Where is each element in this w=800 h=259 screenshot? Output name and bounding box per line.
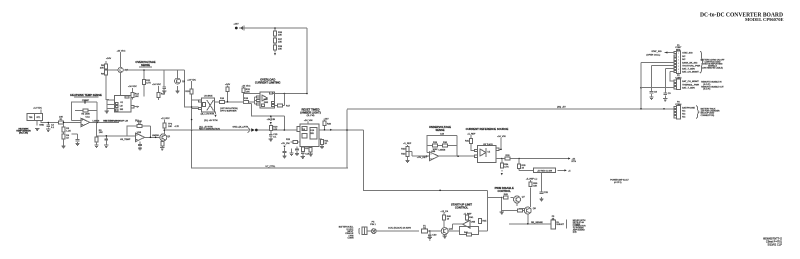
svg-text:(4A) +5V: (4A) +5V — [557, 106, 566, 109]
svg-text:U7_CTRL: U7_CTRL — [266, 166, 277, 168]
svg-text:(2L): (2L) — [135, 120, 139, 122]
svg-text:(AMBER LIGHT): (AMBER LIGHT) — [300, 110, 321, 114]
svg-text:(HS-T-06): (HS-T-06) — [19, 133, 28, 135]
svg-text:(2L) +5V RTN: (2L) +5V RTN — [201, 113, 215, 115]
svg-text:+5_REF: +5_REF — [467, 134, 476, 136]
svg-text:(OPEN COLL): (OPEN COLL) — [646, 54, 660, 56]
svg-text:COIL (BLACK) 16 AWG: COIL (BLACK) 16 AWG — [388, 226, 411, 229]
svg-text:BAT_CH_MGMT: BAT_CH_MGMT — [682, 80, 699, 83]
svg-text:10K: 10K — [533, 185, 537, 187]
svg-text:BAT/PHONE: BAT/PHONE — [682, 106, 695, 109]
svg-text:POWER AMP A3-A7: POWER AMP A3-A7 — [610, 179, 629, 182]
svg-text:10K: 10K — [168, 126, 172, 128]
svg-text:6: 6 — [678, 69, 679, 71]
svg-text:+12 VDC: +12 VDC — [161, 118, 170, 120]
svg-text:R2 100K: R2 100K — [81, 114, 90, 116]
svg-text:+24_VIN: +24_VIN — [497, 136, 506, 138]
svg-text:+5_REF (+): +5_REF (+) — [526, 178, 538, 180]
svg-text:3: 3 — [678, 60, 679, 62]
svg-text:SENSE: SENSE — [435, 128, 444, 132]
svg-text:RTN: RTN — [572, 161, 577, 163]
svg-text:GND: GND — [39, 125, 44, 127]
svg-text:NEXT GENERATION: NEXT GENERATION — [199, 128, 220, 131]
svg-text:7: 7 — [678, 72, 679, 74]
svg-text:MODEL CP96070E: MODEL CP96070E — [745, 18, 784, 22]
svg-text:NC: NC — [682, 117, 686, 119]
svg-text:HS_TEMP: HS_TEMP — [120, 139, 131, 141]
svg-text:+24V: +24V — [233, 24, 239, 26]
svg-text:STAT_SIG: STAT_SIG — [682, 51, 693, 54]
svg-text:LM: LM — [120, 106, 123, 108]
svg-text:BAT_T_SEN: BAT_T_SEN — [682, 67, 695, 70]
svg-text:(4 OF 5): (4 OF 5) — [614, 182, 622, 184]
svg-text:CONN: CONN — [348, 238, 354, 240]
svg-text:+24V: +24V — [106, 58, 112, 60]
svg-text:+5V REG 1A 4W: +5V REG 1A 4W — [537, 169, 552, 172]
svg-text:U1A: U1A — [86, 116, 91, 119]
svg-text:10K: 10K — [246, 91, 250, 93]
svg-text:BAT_T_SEN: BAT_T_SEN — [682, 87, 695, 90]
svg-text:+5_REF: +5_REF — [403, 143, 412, 145]
svg-text:5/13/02 CLP: 5/13/02 CLP — [768, 243, 783, 247]
svg-text:NC: NC — [682, 59, 686, 61]
svg-text:C1 30P: C1 30P — [82, 100, 90, 102]
svg-text:STAT_SIG: STAT_SIG — [651, 50, 662, 53]
svg-text:U1B: U1B — [137, 132, 142, 134]
svg-text:+12_PA: +12_PA — [440, 210, 448, 213]
svg-text:4.7K: 4.7K — [175, 126, 180, 128]
svg-text:LM358: LM358 — [439, 150, 446, 152]
svg-text:CURRENT LIMITING: CURRENT LIMITING — [255, 80, 281, 84]
svg-text:CONNECTOR): CONNECTOR) — [701, 115, 715, 117]
svg-text:NC: NC — [682, 110, 686, 112]
svg-text:+5V_PM: +5V_PM — [281, 143, 290, 145]
svg-text:REF DES 393 COMP LM: REF DES 393 COMP LM — [103, 121, 128, 123]
svg-text:GND_(2L)_RTN: GND_(2L)_RTN — [233, 127, 249, 129]
svg-text:NC: NC — [682, 114, 686, 116]
svg-text:10K: 10K — [59, 117, 63, 119]
svg-text:10K: 10K — [278, 34, 282, 36]
svg-text:(S.O.P.): (S.O.P.) — [703, 89, 710, 91]
svg-text:1.2K: 1.2K — [66, 131, 71, 133]
svg-text:U9A: U9A — [264, 98, 269, 101]
svg-text:SHUNT: SHUNT — [556, 224, 564, 226]
svg-text:THUTTORL_PWR: THUTTORL_PWR — [682, 65, 700, 67]
svg-text:+12 VDC: +12 VDC — [33, 108, 42, 110]
svg-text:2: 2 — [678, 56, 679, 58]
svg-text:10K: 10K — [278, 41, 282, 43]
svg-text:4.7K: 4.7K — [504, 166, 509, 168]
svg-text:CURRENT REFERENCE SOURCE: CURRENT REFERENCE SOURCE — [466, 127, 509, 131]
svg-text:10K: 10K — [273, 129, 277, 131]
svg-text:(ON REMOTE CABLE): (ON REMOTE CABLE) — [702, 67, 723, 70]
svg-text:OPTO BARRIER: OPTO BARRIER — [220, 109, 237, 112]
svg-text:+24 VDC: +24 VDC — [128, 86, 137, 88]
svg-text:(2L) +5V RTN: (2L) +5V RTN — [204, 120, 218, 122]
svg-text:10K: 10K — [135, 96, 139, 98]
svg-text:4.7K: 4.7K — [146, 82, 151, 84]
svg-text:CONTROL: CONTROL — [455, 205, 469, 209]
svg-text:10K: 10K — [278, 48, 282, 50]
svg-text:U4B: U4B — [431, 151, 436, 153]
svg-text:+24 VDC: +24 VDC — [117, 50, 126, 52]
svg-text:20K: 20K — [100, 68, 104, 70]
svg-text:PIN 1: PIN 1 — [370, 224, 376, 226]
svg-text:THERMAL_PWR: THERMAL_PWR — [682, 83, 699, 86]
svg-text:10K: 10K — [99, 132, 103, 134]
svg-text:CONTROL: CONTROL — [498, 189, 512, 193]
svg-text:+24 VDC: +24 VDC — [152, 84, 161, 86]
svg-text:5: 5 — [678, 66, 679, 68]
svg-text:(2L,PM): (2L,PM) — [307, 115, 315, 117]
svg-text:BANK_BK_SIG: BANK_BK_SIG — [682, 61, 697, 64]
svg-text:NC: NC — [682, 56, 686, 58]
svg-text:(A4): (A4) — [573, 230, 577, 233]
svg-text:1: 1 — [678, 53, 679, 55]
svg-text:U6B: U6B — [471, 221, 476, 223]
svg-text:RE_SENSE: RE_SENSE — [531, 222, 543, 224]
svg-text:+UV_DET: +UV_DET — [417, 157, 428, 159]
svg-text:BAT_CH_MGMT: BAT_CH_MGMT — [682, 70, 699, 73]
svg-text:4: 4 — [678, 63, 679, 65]
svg-text:U5 TL431: U5 TL431 — [483, 144, 493, 146]
svg-text:U3 4N35: U3 4N35 — [204, 96, 213, 98]
